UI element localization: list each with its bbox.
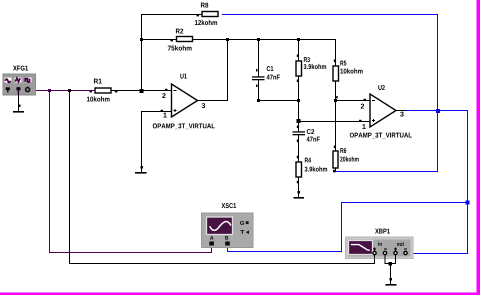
label R6 value 20kohm (340, 156, 359, 161)
wire: purple horizontal to scope A terminal (49, 245, 212, 253)
wire: blue scope B horizontal (227, 245, 342, 252)
wire: right blue vertical R8 net (437, 14, 439, 172)
label R8 (201, 3, 208, 8)
node: junction feedback vertical on input wire (140, 89, 144, 93)
ground below U1 pin1 (135, 166, 147, 174)
wire: U1 pin1 to ground (141, 111, 172, 173)
op-amp U1 (172, 84, 198, 117)
wire: C1 top riser (258, 39, 260, 77)
pin nub U2 pin2 (364, 99, 367, 101)
label U1 (180, 74, 187, 79)
resistor R5 (333, 66, 339, 81)
wire: U2 output stub black (396, 110, 406, 112)
node: junction purple rail bode-in drop (68, 89, 71, 92)
pin nub C2 bottom (297, 140, 299, 143)
ground below XFG1 (13, 95, 24, 113)
pin 3 label U1 (202, 103, 205, 108)
node: blue junction U2 output / right vertical (436, 109, 440, 113)
page border magenta bottom (0, 293, 480, 295)
node: junction mid vertical / C1 bottom wire (297, 99, 300, 102)
label U2 type OPAMP_3T_VIRTUAL (350, 133, 412, 139)
pin nub R4 bottom (297, 181, 299, 184)
pin nub R3 top (297, 55, 299, 58)
wire: black vertical to bode in+ (69, 90, 71, 264)
pin nub R2 left (171, 40, 174, 41)
pin nub R8 left (197, 15, 200, 16)
label R1 (94, 79, 102, 84)
wire: R8 top rail black segment (141, 14, 202, 16)
label U2 (378, 85, 384, 90)
resistor R1 (95, 88, 111, 93)
wire: U2 output blue to far right (406, 110, 468, 112)
label XSC1 A (210, 236, 213, 240)
resistor R3 (296, 61, 302, 76)
wire: blue vertical scope B branch (341, 202, 343, 252)
node: junction C1 top on R2 rail (257, 38, 260, 41)
label R6 (340, 148, 346, 153)
wire: U2 pin1 horizontal (299, 121, 371, 123)
wire: C1 bottom to mid node (258, 80, 299, 101)
pin nub C2 top (297, 126, 299, 129)
label C1 (267, 66, 274, 71)
label XSC1 T (240, 230, 244, 234)
resistor R6 (333, 151, 338, 168)
pin nub C1 bottom (256, 85, 258, 88)
pin nub R5 top (334, 60, 336, 63)
node: junction purple rail scope-A drop (48, 89, 51, 92)
wire: far right blue vertical (467, 110, 469, 254)
label R5 value 10kohm (340, 68, 362, 73)
op-amp U2 (370, 94, 396, 127)
wire: bode in- and out+ to ground (385, 256, 397, 266)
label XSC1 B (225, 236, 228, 240)
label R5 (340, 61, 346, 66)
oscilloscope XSC1 (202, 213, 254, 248)
wire: mid chain vertical R3/C2/R4 (298, 39, 300, 197)
ground below XBP1 (386, 263, 397, 286)
label XFG1 (13, 66, 28, 71)
resistor R8 (202, 12, 218, 17)
wire: U1 output to riser (198, 39, 229, 101)
label R4 (305, 158, 311, 163)
label U1 type OPAMP_3T_VIRTUAL (153, 123, 215, 129)
wire: purple vertical to scope A (49, 90, 51, 253)
node: blue junction far right vertical / scope-B branch (466, 201, 470, 205)
pin 1 label U1 (163, 113, 166, 118)
label C2 (307, 129, 314, 134)
wire: XFG1 output purple rail (29, 90, 95, 92)
label R4 value 3.9kohm (305, 166, 328, 171)
label R2 value 75kohm (168, 45, 192, 50)
label XSC1 (222, 203, 237, 208)
bode plotter XBP1 (346, 237, 414, 259)
resistor R4 (296, 162, 302, 177)
capacitor C2 (293, 131, 306, 135)
pin 2 label U1 (162, 93, 165, 98)
node: corner blob C1 bottom (257, 99, 260, 102)
label R3 value 3.9kohm (304, 64, 327, 69)
pin nub R5 bottom (336, 96, 338, 99)
pin 2 label U2 (361, 104, 364, 109)
pin nub R1 right (115, 91, 118, 92)
wire: blue horizontal branch to scope B (341, 202, 468, 204)
node: junction R2 rail / feedback vertical (140, 38, 143, 41)
label R8 value 12kohm (195, 20, 217, 25)
resistor R2 (177, 37, 193, 42)
wire: black horizontal to bode in+ terminal (69, 256, 375, 264)
pin 3 label U2 (400, 112, 403, 117)
node: junction R3 top on R2 rail (297, 38, 300, 41)
label XBP1 (375, 229, 390, 234)
label C2 value 47nF (307, 137, 320, 142)
pin nub U2 pin1 (359, 120, 362, 122)
pin nub R6 top (334, 146, 336, 149)
label R3 (304, 57, 310, 62)
wire: R2 rail (141, 39, 335, 41)
pin 1 label U2 (362, 124, 365, 129)
label C1 value 47nF (267, 75, 280, 80)
pin nub R1 left (90, 91, 93, 92)
wire: R6 bottom blue horizontal (335, 171, 438, 173)
wire: R8 right blue segment to right vertical (222, 14, 438, 16)
pin nub R3 bottom (297, 80, 299, 83)
ground below R4 (294, 191, 305, 199)
pin nub R4 top (297, 156, 299, 159)
function generator XFG1 (3, 74, 36, 95)
label XBP1 in (378, 242, 382, 246)
pin nub U1 pin2 (165, 89, 168, 91)
capacitor C1 (252, 76, 265, 80)
node: junction U1 output riser on R2 rail (226, 38, 229, 41)
pin nub C1 top (256, 69, 258, 72)
wire: R5 top riser from R2 rail (335, 39, 337, 66)
label XSC1 G (240, 221, 244, 225)
wire: R5-R6 vertical with U2 pin2 tap (335, 81, 370, 151)
wire: R6 bottom stub (335, 168, 337, 172)
node: junction R5 bottom / U2 pin2 (334, 99, 337, 102)
pin nub R6 bottom (333, 170, 336, 173)
page border magenta right (477, 0, 480, 295)
wire: blue bode out- horizontal (406, 253, 468, 255)
pin nub U1 pin1 (161, 110, 164, 112)
node: junction mid vertical / U2 pin1 wire (297, 119, 301, 123)
wire: R1 output to U1 pin2 (111, 90, 172, 92)
label R1 value 10kohm (87, 96, 110, 101)
wire: left feedback vertical (141, 14, 143, 91)
label XBP1 out (397, 242, 404, 246)
label R2 (176, 29, 183, 34)
